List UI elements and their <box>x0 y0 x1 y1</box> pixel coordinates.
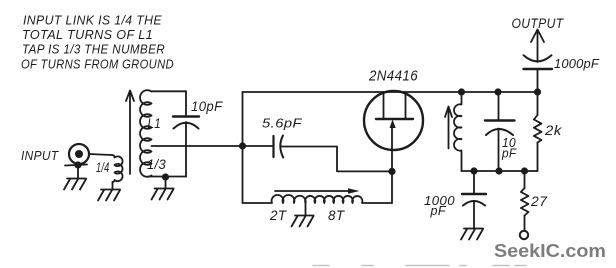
svg-text:5.6pF: 5.6pF <box>262 116 303 131</box>
capacitor 10pF (tank) <box>485 92 515 171</box>
wire (L1 top) <box>152 90 187 92</box>
Q1 source lead <box>405 92 407 119</box>
wire (output branch) <box>537 69 539 92</box>
ground (coil tap) <box>292 216 314 227</box>
jack outer shell <box>69 144 89 164</box>
C 10pF tank straight plate <box>485 119 515 121</box>
terminal (27 output) <box>520 231 528 239</box>
svg-text:2k: 2k <box>544 122 562 138</box>
transistor Q1 2N4416 (JFET) <box>364 91 423 171</box>
svg-text:TOTAL TURNS OF L1: TOTAL TURNS OF L1 <box>22 27 153 42</box>
svg-text:OF TURNS FROM GROUND: OF TURNS FROM GROUND <box>21 57 174 72</box>
svg-text:INPUT LINK IS 1/4 THE: INPUT LINK IS 1/4 THE <box>23 13 162 28</box>
junction (gate node) <box>388 168 395 175</box>
C 5.6pF straight plate <box>272 136 274 157</box>
wire (R27 to terminal) <box>524 216 526 231</box>
C 10pF tank curved plate <box>486 129 513 135</box>
Q1 gate arrowhead <box>390 120 396 129</box>
wire (shell to ground) <box>77 165 79 179</box>
wire (5.6pF to gate, stepped) <box>281 147 393 172</box>
wire (tank bottom to C1000pF) <box>473 171 475 194</box>
C 5.6pF curved plate <box>280 136 283 158</box>
capacitor 1000pF (output) <box>524 55 553 69</box>
junction (tank bottom / 27) <box>521 167 528 174</box>
svg-text:OUTPUT: OUTPUT <box>512 16 565 31</box>
svg-text:27: 27 <box>530 193 548 209</box>
resistor 27 <box>521 171 529 231</box>
C 1000pF curved plate <box>463 201 485 206</box>
inductor L1 <box>140 90 151 177</box>
Q1 gate lead <box>391 126 393 171</box>
svg-text:SeekIC.com: SeekIC.com <box>494 240 606 261</box>
tuning arrow (tank coil) <box>445 107 452 149</box>
capacitor 1000pF (bypass) <box>462 171 486 229</box>
wire (top bus) <box>243 91 538 93</box>
wire (tank bottom) <box>462 170 538 172</box>
wire (bus to C10pF) <box>498 92 500 121</box>
resistor 2k <box>534 92 542 171</box>
connector J1 (coax input jack) <box>65 144 89 179</box>
wire (node A to 5.6pF) <box>243 145 274 147</box>
svg-text:pF: pF <box>430 203 447 218</box>
junction (bus / output) <box>534 88 541 95</box>
C 10pF straight plate <box>173 115 199 117</box>
wire (gate to bottom coil) <box>391 171 393 203</box>
svg-text:pF: pF <box>501 146 517 161</box>
svg-text:2N4416: 2N4416 <box>368 69 418 85</box>
junction (jack shell) <box>74 161 81 168</box>
R 27 zigzag <box>521 188 529 216</box>
tuning arrow (L1) <box>126 91 134 175</box>
output arrow <box>531 30 544 63</box>
Q1 case circle <box>364 91 423 150</box>
C 10pF curved plate <box>174 123 199 129</box>
Q1 channel bar <box>376 118 413 120</box>
ground (input jack shell) <box>64 179 86 190</box>
junction (bus / tank coil) <box>458 88 465 95</box>
coupling arrow (bottom coil) <box>275 188 360 194</box>
jack shell tick <box>65 165 87 166</box>
svg-text:1/3: 1/3 <box>147 156 166 172</box>
C 1000pF straight plate <box>462 193 486 195</box>
wire (L1 bottom) <box>148 176 186 178</box>
capacitor C 5.6pF <box>274 136 284 158</box>
junction (tank bottom / 10pF) <box>495 167 502 174</box>
jack center pin <box>75 150 83 158</box>
wire (tank bottom to R27) <box>524 171 526 188</box>
wire (link coil to ground) <box>112 182 114 190</box>
junction (bus / 10pF) <box>494 88 501 95</box>
wire (node A vertical) <box>242 92 244 203</box>
junction (L1 ground) <box>162 173 169 180</box>
junction (tank bottom / 1000pF) <box>470 167 477 174</box>
wire (coil tap stem) <box>305 203 307 216</box>
svg-text:TAP IS 1/3 THE NUMBER: TAP IS 1/3 THE NUMBER <box>22 42 165 57</box>
inductor link 1/4 <box>112 155 123 182</box>
C 1000pF output curved plate <box>524 55 552 61</box>
node A <box>239 142 246 149</box>
wire (C1000pF to ground) <box>473 201 475 229</box>
svg-text:1/4: 1/4 <box>96 159 110 175</box>
note text <box>21 13 174 72</box>
Q1 drain lead <box>383 92 385 119</box>
wire (L1 tap to node A) <box>152 145 243 147</box>
svg-text:8T: 8T <box>328 208 346 223</box>
svg-text:2T: 2T <box>269 208 288 223</box>
wire (C10pF to tank bottom) <box>498 129 500 172</box>
wire (R2k to tank bottom) <box>537 143 539 172</box>
C 1000pF output straight plate <box>524 68 553 70</box>
wire (bus to R2k) <box>537 92 539 115</box>
ground (link coil) <box>98 190 120 201</box>
inductor tank coil <box>454 92 461 171</box>
wire (jack to link coil) <box>89 154 112 155</box>
svg-text:1000pF: 1000pF <box>554 57 600 71</box>
wire (L1 ground stem) <box>165 177 167 189</box>
scan noise (bottom edge) <box>313 265 526 267</box>
svg-text:L1: L1 <box>148 116 162 131</box>
R 2k zigzag <box>534 115 542 143</box>
ground (L1) <box>152 189 174 200</box>
capacitor 10pF (L1 box) <box>173 117 199 129</box>
svg-text:INPUT: INPUT <box>21 149 59 163</box>
ground (1000pF) <box>461 229 483 240</box>
inductor 2T/8T (bottom coil) <box>243 195 393 203</box>
svg-text:10pF: 10pF <box>191 98 223 114</box>
wire (10pF branch vertical) <box>185 91 187 116</box>
